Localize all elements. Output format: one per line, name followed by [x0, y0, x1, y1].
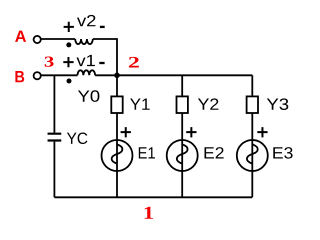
source E1	[102, 140, 133, 171]
polarity dot v2	[66, 42, 71, 47]
minus sign v1	[99, 62, 104, 64]
node 1 label	[145, 207, 153, 219]
wire branch 1	[116, 75, 118, 197]
wire coil v1 to top bus	[95, 74, 252, 76]
node 3 label	[45, 57, 54, 67]
inductor winding v2	[75, 39, 93, 44]
label v2	[77, 15, 96, 26]
admittance box Y3	[247, 96, 258, 113]
plus sign E1	[121, 127, 131, 137]
inductor winding v1	[78, 70, 96, 75]
wire branch 3	[251, 75, 253, 197]
label v1	[77, 55, 95, 66]
node A label	[15, 31, 26, 42]
plus sign E2	[186, 127, 196, 137]
terminal A	[34, 36, 41, 43]
label E1	[139, 147, 155, 158]
plus sign E3	[257, 127, 267, 137]
sine wave E3	[247, 144, 258, 163]
wire A to coil v2	[41, 38, 75, 40]
wire YC branch lower	[53, 142, 55, 198]
node 2 label	[129, 57, 139, 68]
label Y0	[78, 90, 100, 102]
terminal B	[34, 72, 41, 79]
sine wave E1	[112, 144, 123, 163]
sine wave E2	[177, 144, 188, 163]
source E3	[237, 140, 268, 171]
capacitor YC	[48, 134, 62, 141]
bottom bus wire	[54, 196, 252, 198]
admittance box Y2	[177, 96, 188, 113]
minus sign v2	[100, 26, 105, 28]
admittance box Y1	[111, 96, 122, 113]
plus sign v1	[63, 57, 73, 67]
wire YC branch upper	[53, 75, 55, 132]
label Y2	[198, 98, 219, 109]
source E2	[167, 140, 198, 171]
junction node 2	[114, 73, 120, 79]
polarity dot v1	[67, 79, 72, 84]
label Y1	[130, 99, 150, 110]
wire branch 2	[181, 75, 183, 197]
label Y3	[267, 98, 289, 110]
label E3	[273, 147, 292, 159]
node B label	[15, 71, 24, 82]
label YC	[67, 132, 88, 144]
wire B to coil v1	[41, 74, 78, 76]
plus sign v2	[64, 22, 74, 32]
label E2	[205, 147, 224, 158]
wire v2 to node 2	[93, 39, 117, 75]
